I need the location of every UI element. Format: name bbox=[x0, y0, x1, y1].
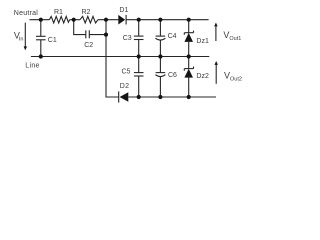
svg-text:Dz2: Dz2 bbox=[196, 73, 209, 80]
svg-text:C3: C3 bbox=[123, 35, 132, 42]
svg-text:Out2: Out2 bbox=[230, 76, 242, 82]
svg-text:Line: Line bbox=[25, 63, 39, 70]
svg-text:R1: R1 bbox=[54, 9, 63, 16]
svg-text:In: In bbox=[19, 36, 24, 42]
svg-text:D1: D1 bbox=[119, 7, 128, 14]
svg-text:C2: C2 bbox=[84, 42, 93, 49]
svg-text:C5: C5 bbox=[122, 69, 131, 76]
svg-text:R2: R2 bbox=[82, 9, 91, 16]
svg-text:Dz1: Dz1 bbox=[196, 38, 209, 45]
svg-text:D2: D2 bbox=[120, 83, 130, 90]
svg-text:C4: C4 bbox=[168, 33, 177, 40]
svg-text:Neutral: Neutral bbox=[14, 10, 39, 17]
svg-text:Out1: Out1 bbox=[229, 36, 241, 42]
svg-text:C6: C6 bbox=[168, 72, 177, 79]
svg-text:C1: C1 bbox=[48, 37, 57, 44]
